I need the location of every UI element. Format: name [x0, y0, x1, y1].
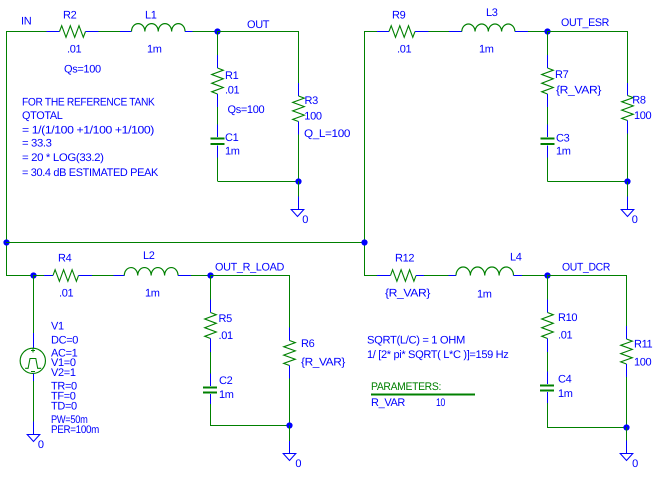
svg-text:1m: 1m [225, 145, 240, 157]
wire left rail corner to V1 junction [6, 275, 33, 277]
ground 0 of ESR tank [621, 196, 634, 216]
svg-text:C2: C2 [219, 375, 233, 387]
wire IN horizontal to R2 [6, 31, 47, 33]
svg-text:.01: .01 [59, 287, 73, 299]
svg-text:1m: 1m [479, 44, 494, 56]
junction OUT node [214, 28, 220, 34]
wire bottom rail of R_LOAD tank [210, 425, 290, 427]
svg-text:V2=1: V2=1 [51, 367, 76, 379]
svg-text:0: 0 [295, 458, 301, 470]
wire L3 to OUT_ESR junction [528, 31, 548, 33]
svg-text:PER=100m: PER=100m [51, 424, 99, 436]
svg-text:FOR THE REFERENCE TANK: FOR THE REFERENCE TANK [22, 96, 155, 108]
wire C2 to bottom rail [210, 404, 212, 426]
wire R10 to C4 [547, 352, 549, 372]
wire bottom rail of DCR tank [547, 427, 627, 429]
svg-text:SQRT(L/C) = 1 OHM: SQRT(L/C) = 1 OHM [367, 335, 465, 347]
resistor R6 [284, 328, 296, 379]
svg-text:DC=0: DC=0 [51, 334, 78, 346]
svg-text:C4: C4 [558, 373, 572, 385]
ground 0 of V1 [27, 422, 40, 442]
wire R7 to C3 [547, 107, 549, 125]
resistor R12 [377, 270, 424, 282]
svg-text:OUT_ESR: OUT_ESR [561, 17, 609, 29]
svg-text:{R_VAR}: {R_VAR} [385, 287, 431, 299]
wire junction to ground [289, 426, 291, 441]
svg-text:OUT: OUT [247, 19, 270, 31]
svg-text:1/ [2* pi* SQRT( L*C )]=159 Hz: 1/ [2* pi* SQRT( L*C )]=159 Hz [367, 349, 509, 361]
wire L1 to OUT junction [193, 31, 218, 33]
svg-text:100: 100 [634, 110, 652, 122]
svg-text:TD=0: TD=0 [51, 401, 77, 413]
PARAMETERS underline [371, 394, 475, 396]
junction bottom of R_LOAD tank [286, 422, 292, 428]
svg-text:= 30.4 dB ESTIMATED PEAK: = 30.4 dB ESTIMATED PEAK [22, 167, 159, 179]
svg-text:10: 10 [436, 397, 445, 409]
wire OUT junction to R3 top corner [218, 31, 299, 33]
junction OUT_DCR node [544, 272, 550, 278]
junction bottom of DCR tank [623, 424, 629, 430]
svg-text:L1: L1 [145, 9, 157, 21]
svg-text:Q_L=100: Q_L=100 [304, 128, 350, 140]
wire OUT_DCR junction to R11 top corner [547, 275, 627, 277]
svg-text:1m: 1m [558, 388, 573, 400]
wire bottom rail of ESR tank [548, 181, 628, 183]
svg-text:Qs=100: Qs=100 [64, 63, 101, 75]
wire junction to ground [298, 181, 300, 196]
wire R8 column lower [627, 134, 629, 182]
junction bottom of ESR tank [624, 178, 630, 184]
wire top-right vertical rail x=364 [364, 31, 366, 275]
wire V1 to ground [33, 381, 35, 422]
inductor L4 [449, 267, 522, 275]
svg-text:R5: R5 [219, 313, 233, 325]
wire R6 column upper [289, 275, 291, 327]
svg-text:.01: .01 [67, 43, 81, 55]
svg-text:0: 0 [632, 214, 638, 226]
wire OUT_R_LOAD junction to R6 top corner [210, 275, 290, 277]
svg-text:R_VAR: R_VAR [371, 397, 405, 409]
wire left vertical rail x=6 [6, 31, 8, 275]
svg-text:0: 0 [302, 214, 308, 226]
capacitor C1 [211, 125, 225, 158]
svg-text:1m: 1m [145, 287, 160, 299]
ground 0 of reference tank [291, 196, 304, 216]
svg-text:100: 100 [634, 357, 652, 369]
resistor R10 [542, 300, 554, 353]
junction OUT_R_LOAD node [207, 272, 213, 278]
svg-text:100: 100 [304, 110, 322, 122]
svg-text:= 1/(1/100 +1/100 +1/100): = 1/(1/100 +1/100 +1/100) [22, 124, 154, 136]
resistor R1 [212, 55, 224, 107]
wire R3 column upper [298, 31, 300, 83]
wire R11 column lower [626, 377, 628, 427]
ground 0 of DCR tank [620, 441, 633, 461]
capacitor C3 [541, 125, 555, 158]
resistor R4 [44, 270, 92, 282]
junction V1 node [30, 272, 36, 278]
svg-text:QTOTAL: QTOTAL [22, 110, 63, 122]
svg-text:IN: IN [21, 16, 32, 28]
svg-text:1m: 1m [556, 145, 571, 157]
svg-text:R12: R12 [395, 252, 414, 264]
wire C3 to bottom rail [547, 158, 549, 182]
capacitor C4 [540, 372, 554, 404]
svg-text:= 20 * LOG(33.2): = 20 * LOG(33.2) [22, 152, 104, 164]
wire R6 column lower [289, 379, 291, 426]
svg-text:V1: V1 [51, 321, 64, 333]
svg-text:R6: R6 [301, 338, 315, 350]
wire V1 junction down to source [33, 275, 35, 333]
svg-text:.01: .01 [225, 84, 239, 96]
wire R3 column lower [298, 135, 300, 182]
svg-text:R8: R8 [632, 94, 646, 106]
svg-text:L2: L2 [143, 250, 155, 262]
svg-text:R10: R10 [558, 312, 577, 324]
wire OUT_R_LOAD junction down to R5 [210, 275, 212, 299]
wire R2 to L1 [99, 31, 121, 33]
svg-text:0: 0 [632, 458, 638, 470]
svg-text:C3: C3 [556, 132, 570, 144]
resistor R9 [377, 26, 428, 38]
svg-text:R4: R4 [58, 252, 72, 264]
svg-text:R3: R3 [305, 95, 319, 107]
svg-text:PARAMETERS:: PARAMETERS: [371, 381, 441, 393]
svg-text:1m: 1m [477, 288, 492, 300]
inductor L3 [449, 24, 528, 32]
junction bottom of reference tank [295, 178, 301, 184]
svg-text:OUT_DCR: OUT_DCR [562, 261, 610, 273]
resistor R7 [542, 55, 554, 107]
svg-text:L4: L4 [510, 251, 522, 263]
wire L4 to OUT_DCR junction [522, 275, 547, 277]
junction right end of bus [361, 239, 367, 245]
wire OUT junction down to R1 [217, 31, 219, 55]
svg-text:0: 0 [38, 439, 44, 451]
svg-text:{R_VAR}: {R_VAR} [556, 84, 602, 96]
svg-text:C1: C1 [225, 132, 239, 144]
svg-text:R2: R2 [63, 9, 77, 21]
wire OUT_ESR junction to R8 top corner [548, 31, 628, 33]
junction OUT_ESR node [544, 28, 550, 34]
svg-text:R9: R9 [392, 9, 406, 21]
wire OUT_DCR junction down to R10 [547, 275, 549, 299]
junction left end of bus [3, 239, 9, 245]
wire junction to ground [627, 182, 629, 197]
wire R12 to L4 [424, 275, 449, 277]
resistor R11 [621, 326, 633, 377]
resistor R5 [205, 300, 217, 353]
inductor L2 [113, 268, 191, 276]
ground 0 of R_LOAD tank [283, 441, 296, 461]
svg-text:R11: R11 [634, 338, 653, 350]
wire L2 to OUT_R_LOAD junction [191, 275, 210, 277]
svg-text:L3: L3 [486, 7, 498, 19]
svg-text:R7: R7 [555, 69, 569, 81]
svg-text:R1: R1 [225, 70, 239, 82]
wire C1 to bottom rail [217, 158, 219, 182]
wire right rail corner to R12 [364, 275, 377, 277]
annotation text block FOR THE REFERENCE TANK [22, 96, 159, 179]
svg-text:1m: 1m [219, 389, 234, 401]
wire R8 column upper [627, 31, 629, 83]
resistor R3 [293, 83, 305, 135]
svg-text:= 33.3: = 33.3 [22, 138, 52, 150]
svg-text:.01: .01 [558, 329, 572, 341]
svg-text:1m: 1m [147, 43, 162, 55]
wire R4 to L2 [92, 275, 113, 277]
resistor R8 [622, 83, 634, 134]
inductor L1 [120, 24, 193, 32]
svg-text:OUT_R_LOAD: OUT_R_LOAD [215, 261, 284, 273]
wire middle bus [6, 242, 364, 244]
svg-text:.01: .01 [219, 330, 233, 342]
wire R5 to C2 [210, 352, 212, 374]
wire R1 to C1 [217, 107, 219, 125]
wire R11 column upper [626, 275, 628, 326]
svg-text:Qs=100: Qs=100 [228, 104, 265, 116]
wire C4 to bottom rail [547, 403, 549, 427]
wire OUT_ESR junction down to R7 [547, 31, 549, 55]
svg-text:{R_VAR}: {R_VAR} [301, 357, 346, 369]
svg-text:.01: .01 [397, 43, 411, 55]
wire rail to R9 [364, 31, 377, 33]
wire junction to R4 [33, 275, 44, 277]
voltage source V1 [20, 333, 45, 381]
wire R9 to L3 [428, 31, 449, 33]
wire junction to ground [626, 427, 628, 441]
capacitor C2 [203, 374, 217, 405]
resistor R2 [47, 26, 99, 38]
wire bottom rail of reference tank [218, 181, 299, 183]
